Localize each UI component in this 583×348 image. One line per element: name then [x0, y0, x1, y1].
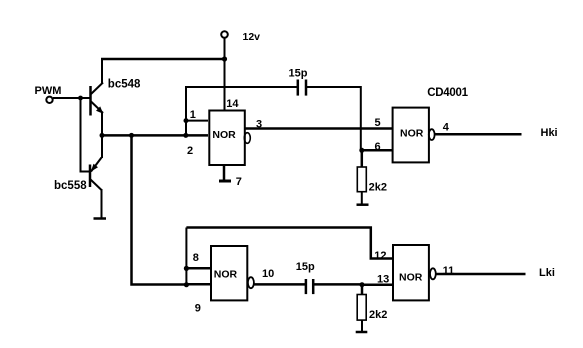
svg-text:8: 8 [193, 252, 199, 264]
ground R1 [357, 203, 369, 206]
ground pin 7 [219, 180, 231, 183]
wire Q1 collector up [101, 58, 103, 83]
terminal PWM [46, 97, 52, 103]
svg-text:2k2: 2k2 [369, 181, 387, 193]
wire pin 6 [362, 149, 393, 152]
wire pin1-pin2 tie [185, 121, 187, 136]
capacitor C2 plate 1 [305, 279, 308, 294]
wire pin 11 output [436, 273, 526, 276]
svg-text:4: 4 [443, 121, 450, 133]
svg-text:10: 10 [262, 268, 274, 280]
U1B output bubble [429, 129, 435, 140]
wire Q2 collector down [101, 189, 103, 219]
svg-text:15p: 15p [296, 261, 315, 273]
wire pin 7 stem [223, 165, 226, 182]
wire pin 8 riser to rail [185, 228, 187, 269]
svg-text:15p: 15p [289, 67, 308, 79]
NOR gate U1A body [209, 111, 245, 166]
node pin 13 [360, 282, 365, 287]
capacitor C2 plate 2 [312, 279, 315, 294]
wire pin 1 up to capacitor C1 [186, 87, 297, 121]
node pin 2 [183, 133, 188, 138]
svg-text:Lki: Lki [539, 267, 555, 279]
wire bottom rail to pin 12 [186, 228, 393, 259]
wire C1 to pin 6 [307, 87, 361, 149]
wire pin 14 [224, 59, 226, 111]
U1C output bubble [248, 277, 254, 288]
node pin 6 [359, 148, 364, 153]
NOR gate U1C body [211, 246, 247, 300]
node pin 9 [184, 282, 189, 287]
U1A output bubble [244, 133, 250, 144]
svg-text:14: 14 [226, 98, 239, 110]
node PWM junction [78, 96, 83, 101]
resistor R2 2k2 [357, 295, 366, 321]
svg-text:5: 5 [375, 117, 381, 129]
wire 12v stem [224, 38, 226, 59]
svg-text:NOR: NOR [399, 271, 423, 283]
node pin 8 [184, 266, 189, 271]
transistor Q1 bc548 [91, 83, 104, 116]
svg-text:12v: 12v [243, 31, 261, 43]
transistor Q2 bc558 [90, 158, 102, 191]
svg-text:bc558: bc558 [54, 180, 87, 192]
svg-text:9: 9 [195, 302, 201, 314]
svg-text:NOR: NOR [400, 128, 424, 140]
svg-text:bc548: bc548 [108, 78, 141, 90]
wire pin 1 [186, 120, 208, 122]
wire PWM to Q1 base [53, 97, 90, 99]
wire pin 3 to pin 5 [244, 127, 393, 130]
ground R2 [356, 331, 368, 334]
wire pin 4 output [435, 133, 522, 136]
svg-text:13: 13 [377, 274, 389, 286]
svg-text:1: 1 [190, 109, 196, 121]
svg-text:2: 2 [187, 145, 193, 157]
wire pin8-pin9 tie [185, 268, 187, 284]
resistor R1 2k2 [357, 167, 366, 192]
svg-text:6: 6 [375, 141, 381, 153]
node B bottom feed [129, 133, 134, 138]
wire pin 10 to capacitor C2 [254, 283, 305, 286]
wire pin 9 [186, 283, 211, 286]
wire emitter junction vertical [101, 112, 103, 158]
svg-text:PWM: PWM [35, 85, 62, 97]
wire R2 bottom stem [361, 320, 363, 332]
wire pin 8 [186, 267, 211, 270]
U1D output bubble [430, 268, 436, 279]
node pin 1 [184, 118, 189, 123]
svg-text:CD4001: CD4001 [427, 87, 468, 99]
terminal 12v [221, 31, 228, 38]
wire R1 top stem [361, 150, 364, 167]
wire node B down to bottom section [132, 135, 187, 284]
svg-text:12: 12 [374, 250, 386, 262]
wire node A to pin 2 [102, 134, 208, 137]
NOR gate U1B body [393, 108, 429, 163]
svg-text:Hki: Hki [541, 127, 558, 139]
svg-text:NOR: NOR [212, 129, 236, 141]
svg-text:NOR: NOR [214, 268, 238, 280]
wire pin 13 [362, 283, 393, 286]
svg-text:7: 7 [236, 176, 242, 188]
NOR gate U1D body [393, 245, 429, 300]
capacitor C1 plate 1 [297, 80, 300, 96]
svg-text:2k2: 2k2 [369, 309, 387, 321]
node A emitters [100, 133, 105, 138]
wire R1 bottom stem [361, 192, 363, 205]
wire R2 top stem [361, 285, 364, 295]
wire top rail [101, 58, 225, 61]
node 12v rail junction [222, 56, 227, 61]
capacitor C1 plate 2 [305, 80, 308, 96]
wire C2 to pin 13 node [314, 283, 362, 286]
wire junction down to Q2 base [81, 98, 90, 172]
ground Q2 [94, 217, 107, 220]
